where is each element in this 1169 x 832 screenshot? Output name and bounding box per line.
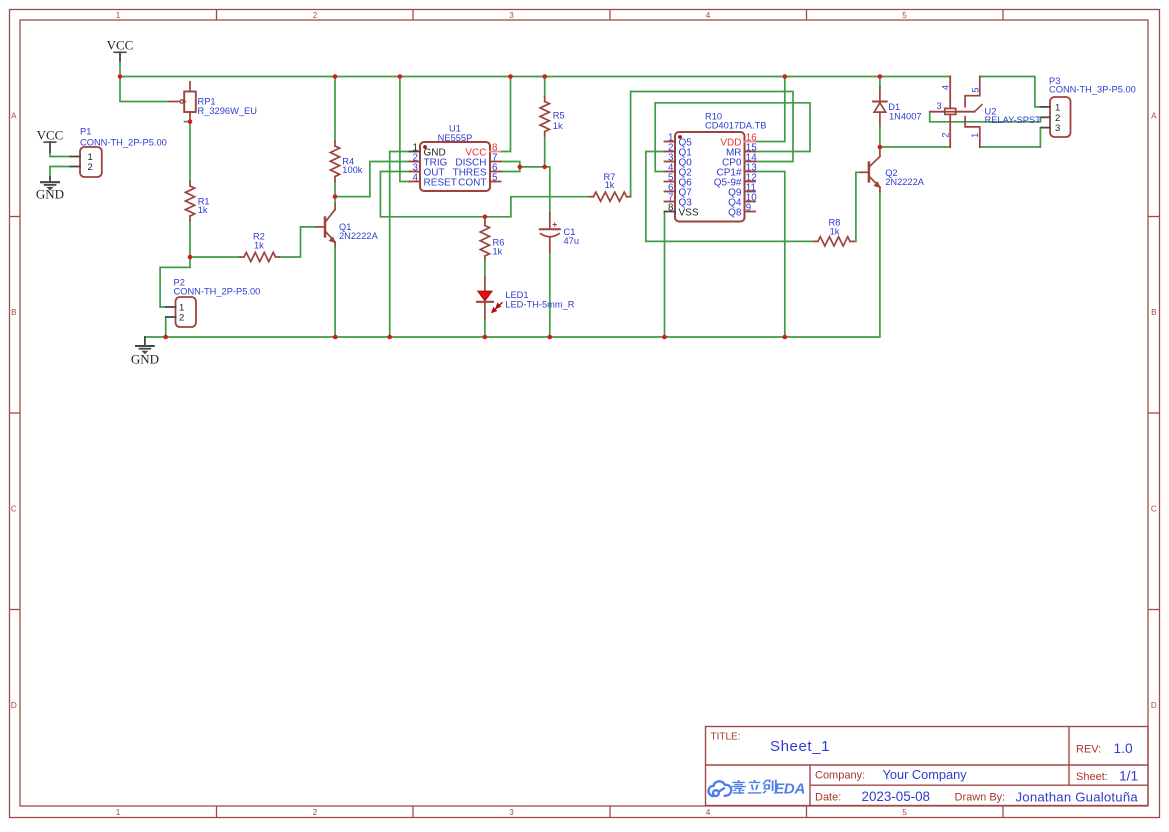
IC R10 CD4017DA.TB decade counter	[675, 132, 745, 222]
op-amp U1 NE555P timer IC	[420, 142, 490, 191]
svg-text:Your Company: Your Company	[883, 767, 968, 782]
U1 pin 4 RESET	[410, 181, 421, 183]
svg-text:5: 5	[492, 173, 498, 184]
R10 pin 1 Q5	[665, 141, 676, 143]
JLC EDA logo	[709, 781, 732, 796]
svg-text:C: C	[11, 505, 17, 514]
R10 pin 4 Q2	[665, 171, 676, 173]
svg-text:A: A	[11, 112, 17, 121]
wire R4 bottom node	[334, 181, 336, 197]
svg-text:8: 8	[668, 203, 674, 214]
R10 pin 14 CP0	[745, 161, 756, 163]
wire R5 bottom to node	[544, 136, 546, 167]
svg-text:CONN-TH_2P-P5.00: CONN-TH_2P-P5.00	[80, 137, 167, 147]
U2 coil pin 2	[949, 114, 951, 147]
wire relay pin 3 to P3 pin 2	[930, 112, 1042, 122]
wire VCC rail right segment to P3 pin 1	[980, 77, 1042, 107]
R10 pin 7 Q3	[665, 201, 676, 203]
svg-text:TITLE:: TITLE:	[711, 731, 741, 742]
svg-text:2: 2	[179, 313, 184, 324]
svg-text:1: 1	[1055, 102, 1060, 113]
wire U1 THRES pin 6	[501, 167, 520, 172]
U1 pin 5 CONT	[490, 181, 501, 183]
LED LED1 red	[484, 261, 486, 278]
svg-text:3: 3	[1055, 123, 1060, 134]
R10 pin 9 Q8	[745, 211, 756, 213]
wire THRES node to R5/C1 node	[520, 166, 545, 168]
U1 pin 7 DISCH	[490, 161, 501, 163]
svg-text:1: 1	[116, 808, 121, 817]
svg-text:Drawn By:: Drawn By:	[955, 792, 1006, 804]
wire U1 GND pin 1 to rail	[390, 152, 410, 338]
wire VCC flag to P1 pin 1	[50, 152, 70, 157]
svg-text:2: 2	[313, 11, 318, 20]
P2 pin 2	[166, 316, 176, 318]
svg-text:CONT: CONT	[458, 177, 486, 188]
R10 pin 2 Q1	[665, 151, 676, 153]
R10 pin 11 Q9	[745, 191, 756, 193]
svg-text:100k: 100k	[342, 165, 363, 175]
wire OUT node to R6 top	[484, 217, 486, 221]
svg-text:Company:: Company:	[815, 770, 865, 782]
resistor R6 1k	[484, 221, 486, 226]
svg-text:U1: U1	[449, 123, 461, 133]
svg-text:2N2222A: 2N2222A	[885, 177, 925, 187]
resistor R2 1k	[240, 256, 244, 258]
svg-text:3: 3	[937, 101, 942, 111]
svg-text:Q8: Q8	[728, 207, 742, 218]
svg-text:VCC: VCC	[107, 38, 134, 53]
wire R10 VDD pin 16 to VCC rail	[755, 77, 785, 142]
resistor R8 1k	[814, 240, 818, 242]
wire R10 VSS pin 8 to rail	[664, 212, 666, 338]
svg-text:4: 4	[706, 11, 711, 20]
wire U1 RESET pin 4 to VCC rail	[400, 77, 410, 182]
P2 pin 1	[166, 306, 176, 308]
svg-text:LED-TH-5mm_R: LED-TH-5mm_R	[505, 299, 574, 309]
wire GND bottom rail	[145, 192, 880, 337]
R10 pin 5 Q6	[665, 181, 676, 183]
svg-text:1k: 1k	[254, 241, 264, 251]
svg-text:1.0: 1.0	[1114, 741, 1134, 756]
svg-text:D: D	[1151, 701, 1157, 710]
svg-text:5: 5	[902, 808, 907, 817]
R10 pin 6 Q7	[665, 191, 676, 193]
svg-text:2023-05-08: 2023-05-08	[862, 789, 931, 804]
svg-text:Sheet_1: Sheet_1	[770, 738, 830, 755]
svg-text:5: 5	[902, 11, 907, 20]
U2 switch pin 1	[965, 117, 980, 147]
P3 pin 2	[1042, 116, 1051, 118]
ground symbol GND (bottom rail)	[144, 337, 146, 346]
svg-text:VSS: VSS	[679, 207, 699, 218]
svg-text:D: D	[11, 701, 17, 710]
capacitor C1 47u polarized	[549, 213, 551, 228]
wire R10 CP1# pin 13 to GND rail	[755, 172, 785, 338]
wire P2 pin 2 to GND rail	[165, 317, 167, 337]
svg-text:P1: P1	[80, 127, 91, 137]
U1 pin 1 GND	[410, 151, 421, 153]
wire RP1 to R1	[189, 122, 191, 182]
R10 pin 12 Q5-9#	[745, 181, 756, 183]
wire R4 node to U1 TRIG pin 2	[335, 162, 410, 197]
R10 pin 16 VDD	[745, 141, 756, 143]
svg-text:A: A	[1151, 112, 1157, 121]
svg-text:1: 1	[970, 133, 980, 138]
svg-text:2N2222A: 2N2222A	[339, 231, 379, 241]
svg-text:1N4007: 1N4007	[889, 112, 922, 122]
R10 pin 15 MR	[745, 151, 756, 153]
title block	[706, 727, 1149, 806]
svg-text:1k: 1k	[198, 205, 208, 215]
R10 pin 13 CP1#	[745, 171, 756, 173]
wire RP1 bottom stub tick	[185, 121, 191, 123]
svg-text:VCC: VCC	[37, 127, 64, 142]
wire relay pin 1 to P3 pin 3	[980, 128, 1042, 147]
svg-text:REV:: REV:	[1076, 744, 1101, 756]
wire R4 node down to Q1 collector	[334, 197, 336, 204]
P1 pin 2	[70, 166, 80, 168]
U1 pin 2 TRIG	[410, 161, 421, 163]
svg-text:R5: R5	[553, 111, 565, 121]
svg-text:B: B	[1151, 308, 1157, 317]
svg-text:4: 4	[941, 85, 951, 90]
P1 pin 1	[70, 156, 80, 158]
svg-text:Sheet:: Sheet:	[1076, 771, 1108, 783]
potentiometer RP1	[189, 82, 191, 92]
U2 coil body	[945, 108, 956, 114]
svg-text:Jonathan Gualotuña: Jonathan Gualotuña	[1016, 789, 1139, 804]
svg-text:4: 4	[413, 173, 419, 184]
svg-text:2: 2	[313, 808, 318, 817]
wire VCC net: top power rail	[119, 61, 121, 77]
svg-text:CD4017DA.TB: CD4017DA.TB	[705, 120, 767, 130]
wire U1 VCC pin 8 to rail	[501, 77, 511, 152]
wire LED1 cathode to rail	[484, 318, 486, 337]
U2 switch pin 5	[965, 77, 980, 107]
R10 pin 8 VSS	[665, 211, 676, 213]
svg-text:1k: 1k	[830, 226, 840, 236]
svg-text:EDA: EDA	[774, 780, 805, 797]
wire U1 OUT pin 3 to R7	[380, 172, 589, 217]
U1 pin-1 indicator dot	[423, 145, 427, 149]
R10 pin-1 indicator dot	[678, 135, 682, 139]
wire R7 right to R10 CP0 pin 14	[631, 92, 793, 197]
P3 pin 3	[1042, 127, 1051, 129]
wire U1 DISCH pin 7	[501, 162, 520, 167]
svg-text:+: +	[552, 219, 557, 229]
svg-text:1k: 1k	[553, 121, 563, 131]
resistor R1 1k	[189, 182, 191, 187]
wire R1 to R2 node	[189, 221, 191, 258]
svg-text:4: 4	[706, 808, 711, 817]
svg-text:Date:: Date:	[815, 792, 841, 804]
svg-text:1k: 1k	[605, 180, 615, 190]
resistor R5 1k	[544, 97, 546, 102]
svg-text:CONN-TH_2P-P5.00: CONN-TH_2P-P5.00	[174, 286, 261, 296]
svg-text:GND: GND	[131, 351, 159, 366]
R10 pin 10 Q4	[745, 201, 756, 203]
svg-text:1/1: 1/1	[1119, 769, 1138, 784]
wire node to C1 top	[545, 167, 550, 213]
transistor Q2 2N2222A NPN	[868, 163, 871, 182]
svg-text:1k: 1k	[493, 247, 503, 257]
U2 coil pin 4	[949, 77, 951, 109]
wire VCC rail to R4	[334, 77, 336, 142]
wire R8 right to Q2 base	[854, 172, 861, 241]
U1 pin 6 THRES	[490, 171, 501, 173]
svg-text:2: 2	[88, 162, 93, 173]
wire VCC to RP1 wiper	[120, 77, 170, 102]
svg-text:5: 5	[970, 87, 980, 92]
svg-text:NE555P: NE555P	[438, 133, 473, 143]
wire node to R2 left	[190, 256, 240, 258]
wire C1 bottom to rail	[549, 252, 551, 337]
wire D1 anode node to relay coil pin 2	[880, 146, 950, 148]
wire VCC rail to R5	[544, 77, 546, 98]
ground symbol GND (at P1)	[49, 177, 51, 182]
svg-text:LED1: LED1	[505, 290, 528, 300]
svg-text:1: 1	[116, 11, 121, 20]
wire R10 MR pin 15 to Q2 output pin 4	[655, 103, 810, 172]
svg-text:3: 3	[509, 11, 514, 20]
resistor R4 100k	[334, 142, 336, 147]
junction dots	[118, 74, 123, 79]
diode D1 1N4007	[879, 77, 881, 88]
transistor Q1 2N2222A NPN	[324, 218, 327, 237]
resistor R7 1k	[590, 196, 594, 198]
U2 switch blade	[974, 105, 982, 112]
svg-text:C: C	[1151, 505, 1157, 514]
P3 pin 1	[1042, 106, 1051, 108]
svg-text:3: 3	[509, 808, 514, 817]
svg-text:RELAY-SPST: RELAY-SPST	[985, 115, 1042, 125]
svg-text:RP1: RP1	[198, 96, 216, 106]
svg-text:B: B	[11, 308, 17, 317]
wire R2 right to Q1 base	[280, 227, 317, 257]
U2 coil pin 3 lead	[931, 111, 975, 113]
wire node to P2 pin 1	[160, 257, 190, 307]
wire P1 pin 2 to GND flag	[50, 167, 70, 178]
svg-text:R_3296W_EU: R_3296W_EU	[198, 106, 257, 116]
U1 pin 8 VCC	[490, 151, 501, 153]
svg-text:RESET: RESET	[424, 177, 457, 188]
wire R10 Q1 pin 2 to R8	[646, 152, 814, 242]
svg-text:47u: 47u	[564, 236, 580, 246]
svg-text:GND: GND	[36, 186, 64, 201]
svg-text:9: 9	[746, 203, 751, 214]
R10 pin 3 Q0	[665, 161, 676, 163]
U1 pin 3 OUT	[410, 171, 421, 173]
svg-text:CONN-TH_3P-P5.00: CONN-TH_3P-P5.00	[1049, 85, 1136, 95]
svg-text:2: 2	[940, 132, 950, 137]
